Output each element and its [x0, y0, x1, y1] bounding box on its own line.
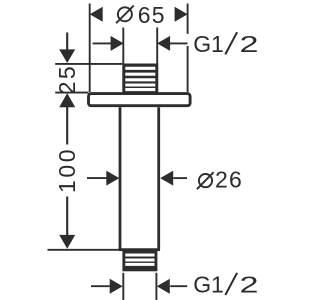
- svg-text:G: G: [193, 272, 211, 298]
- dimension G1/2 top: arrows: [111, 36, 171, 51]
- bottom thread G1/2 (hatched): [122, 251, 157, 271]
- svg-text:26: 26: [215, 167, 243, 193]
- pipe body: [119, 107, 160, 250]
- dimension Ø65: diameter symbol: [116, 6, 134, 24]
- dimension G1/2 bottom: label: [193, 272, 258, 298]
- dimension Ø26: diameter symbol: [197, 172, 214, 189]
- svg-text:2: 2: [240, 272, 259, 298]
- dimension G1/2 top: label: [193, 31, 258, 57]
- dimension 100: dimension line: [66, 107, 68, 236]
- dimension Ø65: arrows: [90, 7, 188, 22]
- top thread G1/2 (hatched): [122, 64, 158, 94]
- svg-text:25: 25: [54, 64, 80, 94]
- dimension G1/2 top: leader lines: [93, 42, 188, 44]
- dimension Ø65: extension lines: [90, 4, 188, 93]
- flange (ceiling rosette): [89, 94, 191, 106]
- dimension 25: dimension line: [66, 33, 68, 51]
- svg-text:100: 100: [54, 147, 80, 193]
- svg-text:65: 65: [138, 2, 166, 28]
- dimension 25: extension lines: [55, 64, 122, 93]
- svg-text:2: 2: [240, 31, 259, 57]
- dimension G1/2 bottom: extension lines: [123, 273, 156, 300]
- dimension G1/2 bottom: arrows: [110, 279, 170, 294]
- svg-text:1: 1: [211, 272, 224, 298]
- dimension Ø26: leader lines: [87, 177, 187, 179]
- dimension G1/2 top: extension lines: [123, 28, 157, 64]
- dimension 100: bottom arrow: [59, 235, 75, 249]
- dimension Ø26: arrows: [106, 171, 173, 186]
- dimension 25: arrows: [59, 49, 75, 107]
- svg-text:G: G: [193, 31, 211, 57]
- dimension G1/2 bottom: leader lines: [91, 285, 187, 287]
- svg-text:1: 1: [211, 31, 224, 57]
- dimension 100: extension line (pipe bottom): [48, 249, 120, 251]
